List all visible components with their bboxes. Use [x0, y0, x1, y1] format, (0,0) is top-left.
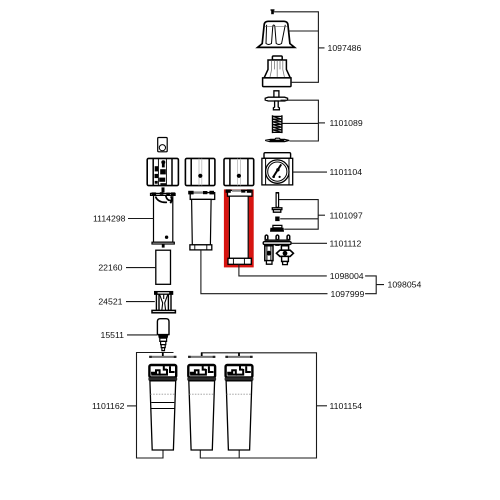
15511	[157, 319, 169, 351]
gauge 1101104	[262, 153, 293, 185]
filter 2	[187, 353, 216, 451]
valve 1101112	[263, 235, 293, 265]
leader 22160	[126, 267, 156, 269]
cylinder 3 (in red box, 1098004)	[226, 189, 252, 264]
svg-text:1098054: 1098054	[388, 280, 422, 290]
box 1101154	[200, 353, 316, 458]
leaders 1101097	[279, 200, 318, 230]
svg-text:1097486: 1097486	[328, 43, 362, 53]
svg-text:1101104: 1101104	[330, 167, 363, 177]
leader 1101112	[291, 242, 327, 244]
plug under head1	[162, 187, 165, 192]
svg-text:1101112: 1101112	[330, 238, 362, 248]
leader 15511	[127, 334, 157, 336]
filter 1	[148, 353, 177, 451]
cylinder 1114298	[151, 192, 176, 247]
svg-text:1114298: 1114298	[93, 214, 126, 224]
small part above head1	[158, 138, 168, 152]
knob 1097486	[258, 21, 295, 47]
leaders 1101089	[281, 100, 319, 141]
leader 1101154	[317, 405, 328, 407]
svg-text:1101097: 1101097	[330, 210, 363, 220]
leader 1098004 from cylinder3	[239, 264, 327, 276]
leaders 1097486	[274, 12, 319, 83]
filter 3	[225, 353, 254, 451]
knob base	[263, 56, 291, 87]
disc 1101089	[265, 138, 289, 141]
knob screw	[271, 9, 275, 14]
svg-text:1098004: 1098004	[330, 271, 364, 281]
svg-text:1101162: 1101162	[92, 401, 125, 411]
24521	[152, 291, 175, 313]
svg-text:1101154: 1101154	[330, 401, 363, 411]
leader 24521	[126, 301, 155, 303]
head3	[224, 158, 254, 185]
head2	[185, 158, 215, 185]
needle stem 1101097	[270, 192, 284, 232]
22160	[156, 250, 171, 284]
spring 1101089	[273, 115, 282, 133]
stem fitting 1101089	[265, 91, 287, 110]
svg-text:1101089: 1101089	[330, 118, 363, 128]
svg-text:15511: 15511	[100, 330, 124, 340]
box 1101162	[137, 353, 174, 459]
cylinder 2	[188, 191, 215, 250]
filter3 stem	[238, 450, 240, 458]
bracket 1098054	[365, 276, 384, 294]
svg-text:24521: 24521	[98, 297, 122, 307]
svg-text:1097999: 1097999	[331, 289, 365, 299]
leader 1097999 from cylinder2	[201, 250, 328, 294]
leader 1101162	[127, 405, 137, 407]
svg-text:22160: 22160	[98, 263, 122, 273]
leader 1114298	[128, 218, 154, 220]
head1	[147, 158, 178, 185]
leader 1101104	[293, 171, 327, 173]
red highlight box	[226, 192, 251, 265]
